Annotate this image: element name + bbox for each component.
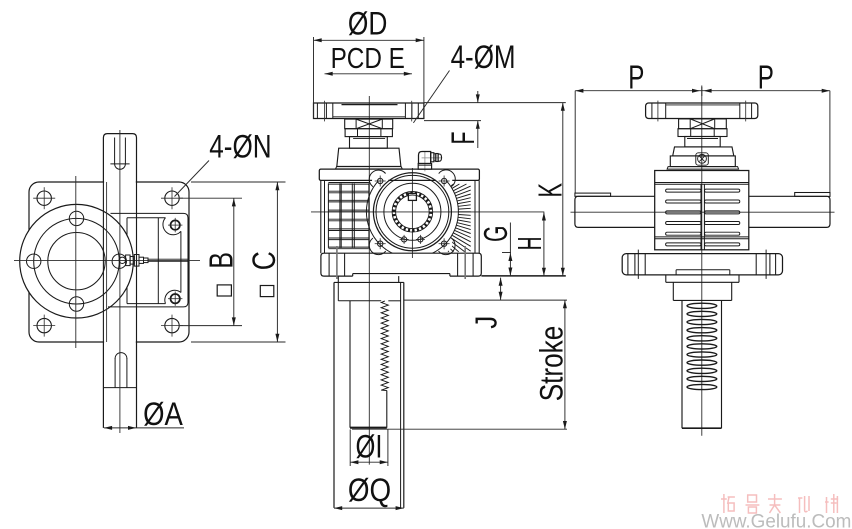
watermark chinese chars	[723, 494, 725, 513]
cap side	[673, 147, 734, 156]
flange hole centerline ticks	[324, 101, 326, 122]
svg-text:F: F	[445, 132, 481, 145]
shaft bore top detail	[114, 138, 116, 164]
dimension K	[481, 275, 565, 277]
inner divider line	[157, 218, 159, 304]
svg-text:4-ØM: 4-ØM	[451, 39, 516, 75]
svg-text:ØD: ØD	[348, 5, 388, 41]
centerline vertical screw axis	[368, 96, 370, 465]
shaft centerline	[119, 130, 121, 433]
flange circle mask	[20, 205, 132, 317]
oil screw detail	[696, 153, 709, 165]
bottom mounting plate	[321, 253, 481, 276]
4 corner bolt holes with center marks	[37, 191, 51, 205]
svg-text:4-ØN: 4-ØN	[209, 129, 271, 165]
dimension J	[500, 278, 502, 300]
worm shaft tube top	[103, 134, 136, 182]
boss outer silhouette r46	[366, 166, 458, 258]
svg-text:K: K	[531, 183, 568, 198]
body square housing	[29, 182, 189, 342]
keyway	[408, 193, 416, 200]
svg-text:G: G	[477, 226, 514, 242]
two cover screws	[171, 220, 180, 229]
tube wall lines over flange	[102, 182, 104, 342]
grease fitting front	[424, 151, 426, 171]
lock nut side	[679, 119, 727, 129]
shaft bottom bore detail	[114, 358, 116, 388]
body side walls	[320, 180, 322, 253]
body box side	[655, 171, 749, 250]
collar side	[665, 275, 667, 282]
svg-text:PCD E: PCD E	[331, 43, 405, 75]
worm shaft left side	[575, 196, 655, 227]
dimension G	[502, 252, 511, 254]
bushing cylinder	[350, 137, 388, 149]
boss circles	[373, 173, 451, 251]
grease fitting left view	[119, 257, 125, 263]
centerline vertical flange	[75, 176, 77, 348]
flange circles (lifting screw flange)	[20, 204, 134, 318]
lifting screw with thread	[349, 301, 351, 428]
worm shaft right side	[749, 196, 830, 227]
inner contour with screw lobes	[127, 217, 166, 219]
leader 4-ØM	[413, 71, 449, 123]
lock nut with cross	[345, 119, 393, 129]
svg-text:ØQ: ØQ	[348, 472, 391, 508]
block side	[672, 282, 674, 300]
svg-text:J: J	[468, 316, 503, 329]
dimension C	[191, 181, 286, 183]
gray hidden verticals feet	[336, 246, 338, 279]
inner housing rectangle	[108, 213, 188, 307]
dimension Stroke	[404, 299, 567, 301]
centerline vertical	[701, 87, 703, 436]
leader 4-ØN	[175, 161, 210, 197]
svg-text:B: B	[202, 252, 239, 269]
dimension ØQ	[334, 507, 404, 509]
dimension H	[543, 212, 545, 276]
small screws below bore	[402, 237, 407, 242]
dimension ØI	[349, 430, 351, 467]
fin slots	[666, 189, 701, 192]
bottom plate side	[622, 254, 782, 275]
svg-text:Www.Gelufu.Com: Www.Gelufu.Com	[701, 512, 851, 529]
dimension F	[424, 102, 566, 104]
right radial fins	[451, 184, 454, 186]
svg-text:ØI: ØI	[356, 428, 383, 464]
top flange side	[646, 103, 758, 119]
lobe masks	[372, 173, 388, 189]
dimension ØA	[104, 427, 184, 429]
hex nut	[345, 129, 392, 137]
top flange plate	[314, 103, 424, 119]
worm shaft end: threaded bore	[392, 192, 433, 233]
bushing side	[685, 137, 720, 147]
svg-text:Stroke: Stroke	[533, 326, 569, 402]
worm shaft tube mask	[104, 134, 136, 427]
svg-text:H: H	[511, 237, 548, 251]
dimension P P	[575, 90, 830, 92]
left cooling fin ladder	[327, 183, 329, 248]
svg-text:ØA: ØA	[143, 396, 183, 432]
body top plate	[319, 169, 479, 180]
screw side with coils	[681, 300, 683, 428]
protection tube	[333, 282, 335, 508]
svg-text:P: P	[758, 58, 774, 95]
hex nut side	[678, 129, 727, 137]
worm shaft tube through body	[136, 182, 138, 342]
centerline horizontal	[14, 260, 200, 262]
4 flange bolt holes	[69, 211, 83, 225]
dimension B	[180, 197, 242, 199]
worm shaft tube bottom	[102, 342, 104, 428]
boss bolt holes with lobes	[378, 178, 383, 183]
svg-text:C: C	[246, 251, 282, 270]
square symbol C	[260, 286, 274, 297]
centerline horizontal worm shaft	[571, 211, 835, 213]
svg-text:P: P	[628, 58, 644, 95]
centerline horizontal worm axis	[311, 211, 544, 213]
spigot lip	[675, 270, 677, 275]
housing top cap	[337, 148, 401, 166]
centerline boss vertical	[411, 168, 413, 258]
collar below plate	[337, 276, 339, 282]
square symbol B	[217, 285, 231, 296]
